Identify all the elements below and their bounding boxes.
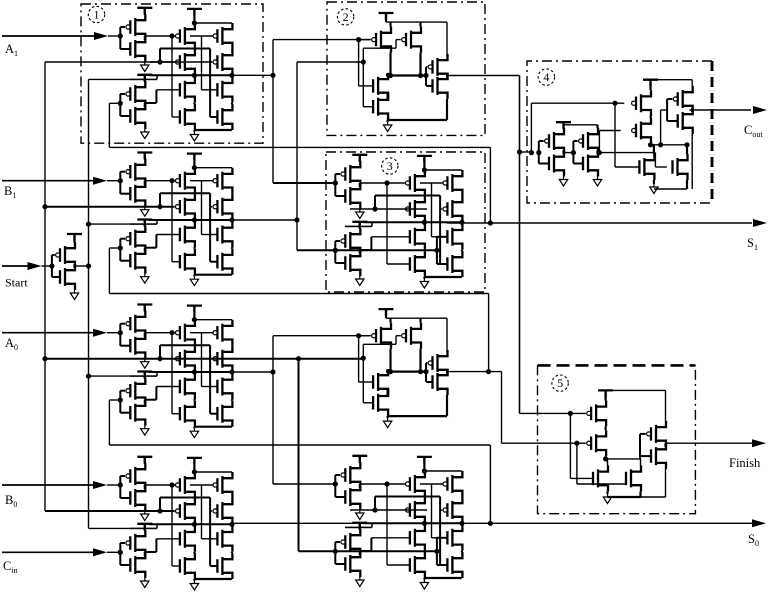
block4 input riser node [529, 150, 534, 155]
wire XL2 inverter1 output to mid P3 gate [145, 180, 175, 182]
XL1 inverter2 output node wire [144, 103, 146, 107]
block4 P stack to rail [649, 144, 651, 145]
XM5 right stack node [461, 551, 463, 552]
transistor U4-N4 (parallel NMOS B) [673, 154, 688, 180]
wire XL1 inverter1 output to mid P3 gate [145, 35, 175, 37]
wire to inverter3 gate [661, 109, 668, 111]
XM3 mid stack node [423, 250, 425, 251]
block4 rail node A [648, 142, 653, 147]
transistor XM5-P6 (right stack) [443, 497, 462, 523]
wire XM5 VDD link to right stack [424, 470, 462, 472]
block5 P stack to node [604, 456, 606, 459]
wire Start-bar tap to XL4 [89, 527, 158, 529]
XL4 mid stack node [193, 552, 195, 553]
wire XL1 inv1-out down to right N5 gate [201, 36, 203, 90]
wire B0 to inverter [107, 484, 120, 486]
wire [2, 551, 94, 553]
XL1 inverter1 VDD lead [144, 8, 146, 15]
ground (XL1 inverter1) [141, 62, 149, 72]
XM3 right stack node [461, 222, 463, 224]
svg-text:Finish: Finish [729, 456, 761, 470]
transistor XL3-P5 (right stack) [213, 320, 232, 346]
wire AND4 NAND output rail [386, 371, 426, 373]
transistor XL2-N6 (right stack) [217, 249, 232, 275]
AND2 PA drain lead [389, 22, 391, 27]
XL3 node inv1-out [169, 330, 174, 335]
wire XM5 in2 segment [350, 509, 427, 511]
block4 NA source [653, 180, 655, 184]
transistor XM3-N3 (mid stack) [410, 224, 425, 250]
wire block4 inv1 out [564, 152, 574, 154]
wire XL2 VDD link to right stack [194, 167, 232, 169]
wire XM5 N6 gate lead tie [437, 564, 448, 566]
block5 P series link [604, 426, 606, 430]
XL4 node inv1-out [169, 482, 174, 487]
AND2 N stack bottom [387, 120, 389, 122]
transistor XL2-N1 (inverter1 NMOS) [130, 181, 145, 207]
block4 inverter3 gate bus [666, 99, 668, 121]
XL3 right stack node [231, 372, 233, 374]
XL2 inverter2 NMOS gate stub [120, 260, 130, 262]
transistor XL3-N2 (inverter2 NMOS) [130, 400, 145, 426]
block label 4 (circled) [538, 69, 554, 85]
XM5 inverter1 output node wire [359, 484, 361, 488]
transistor QS-P (Start inverter PMOS) [56, 242, 75, 268]
output arrow Finish [752, 439, 766, 447]
block4 inv3 out node [691, 108, 693, 112]
wire XL3 in2 riser [159, 345, 161, 359]
wire XL3 fan vertical [272, 336, 274, 484]
wire block4 NB to ground [654, 188, 687, 190]
wire block4 to upper PMOS gate [531, 102, 624, 104]
wire XL4 second input to mid P4 gate [150, 510, 175, 512]
wire XL1 to mid N4 gate [172, 116, 180, 118]
AND4 PA drain lead [389, 318, 391, 323]
wire S1 feedback horizontal [109, 146, 490, 148]
wire block4 input down to N3 gate [614, 103, 616, 167]
Start inverter PMOS gate stub [52, 254, 55, 256]
wire XM3 inverter1 output to mid P3 gate [360, 182, 405, 184]
XL3 inverter1 input node [118, 330, 123, 335]
XM3 inverter1 gate bus [334, 174, 336, 196]
XM3 inverter1 input node [333, 180, 338, 185]
wire into block5 input1 [520, 412, 586, 414]
transistor XM5-P2 (inverter2 PMOS) [341, 529, 360, 555]
wire block5 NOR output rail [606, 458, 641, 460]
transistor XL1-P1 (inverter1 PMOS) [126, 14, 145, 40]
XL4 mid stack VDD lead [193, 458, 195, 472]
wire XM5 in2 riser [374, 497, 376, 511]
AND2 VDD stem [385, 13, 387, 22]
input arrow B0 [93, 481, 107, 489]
transistor XL1-P3 (mid stack) [176, 23, 195, 49]
XL3 inverter1 VDD lead [144, 305, 146, 312]
XL2 output node B [229, 217, 234, 222]
transistor QS-N (Start inverter NMOS) [60, 264, 75, 290]
svg-text:2: 2 [343, 10, 349, 24]
ground (XL4 inverter1) [141, 511, 149, 521]
transistor AND4-NA (NAND NMOS A) [373, 369, 388, 395]
transistor XM3-P2 (inverter2 PMOS) [341, 228, 360, 254]
wire XM3 inv1-out down to mid N4 gate [386, 183, 388, 264]
transistor AND2-NB (NAND NMOS B) [373, 94, 388, 120]
wire XL2 to mid N4 gate [172, 261, 180, 263]
XM3 inverter2 output node wire [359, 250, 361, 254]
XL1 output node B [229, 73, 234, 78]
node block4 input [517, 149, 522, 154]
AND4 N stack top link [387, 369, 389, 372]
XL3 inverter2 output node wire [144, 400, 146, 404]
wire XL2 inv1-out down to mid N4 gate [171, 181, 173, 262]
input arrow A0 [93, 329, 107, 337]
XL3 inverter2 PMOS gate stub [120, 390, 125, 392]
wire AND2 output [447, 75, 520, 77]
XM3 output node A [422, 220, 427, 225]
wire Start to XL1 in2 [45, 61, 212, 63]
block 5 boundary (dash-dot box) [538, 365, 696, 513]
Start inverter gate bus [51, 255, 53, 277]
XL1 output node A [192, 73, 197, 78]
wire XM3 inv2-out riser [370, 237, 372, 250]
transistor XL2-P1 (inverter1 PMOS) [126, 159, 145, 185]
VDD rail (XM5 mid stack) [417, 457, 432, 464]
AND4 VDD stem [385, 309, 387, 318]
svg-text:5: 5 [557, 376, 563, 390]
VDD rail (XL1 inverter2) [137, 75, 152, 82]
wire to XL2 inverter2 input [109, 247, 120, 249]
XL4 inverter1 VDD lead [144, 457, 146, 464]
XL1 inverter1 input node [118, 33, 123, 38]
ground (XL4 inverter2) [141, 578, 149, 588]
wire AND2 inverter VDD feed [446, 22, 448, 56]
wire XL4 P6 gate lead [210, 510, 212, 512]
XL2 inverter1 VDD lead [144, 153, 146, 160]
input arrow B1 [93, 177, 107, 185]
XM5 output node A [422, 521, 427, 526]
Start inverter NMOS gate stub [52, 276, 60, 278]
wire block4 to N4 gate down [654, 153, 656, 167]
bus Start-bar (x=88.5) [88, 79, 90, 528]
VDD rail (XM3 inverter1) [352, 155, 367, 162]
XL4 inverter2 NMOS gate stub [120, 564, 130, 566]
XL2 VDD node [192, 165, 197, 170]
block4 inverter1 gate bus [538, 141, 540, 164]
ground (AND4) [383, 418, 391, 428]
node XM5 stack gate tie [434, 549, 439, 554]
wire [2, 35, 95, 37]
wire block5 inverter N gate lead [640, 455, 651, 457]
wire AND4 output [447, 371, 502, 373]
XL3 inverter2 NMOS gate stub [120, 412, 130, 414]
XL4 inverter1 output node wire [144, 485, 146, 489]
XM5 inverter2 NMOS gate stub [335, 563, 345, 565]
wire Start-bar tap to XL2 [89, 223, 158, 225]
node XM5 in1 [333, 481, 338, 486]
XL2 node in2 [157, 204, 162, 209]
XL1 right stack node [231, 75, 233, 77]
ground (XL3 mid stack) [190, 428, 198, 438]
wire XL4 right stack to ground [194, 578, 232, 580]
wire block4 inverter3 input riser [660, 110, 662, 145]
transistor U4-P5 (out inverter PMOS) [673, 86, 692, 112]
block4 inv1 input [536, 150, 541, 155]
AND4 inverter NMOS gate stub [426, 381, 432, 383]
wire XL3 right stack to ground [194, 426, 232, 428]
transistor XL4-P2 (inverter2 PMOS) [126, 530, 145, 556]
wire block5 NB to ground [608, 496, 641, 498]
wire XM5 right stack to ground [424, 577, 462, 579]
AND2 PB drain lead [419, 22, 421, 27]
VDD rail (block5) [598, 390, 613, 397]
block label 1 (circled) [88, 6, 104, 22]
ground (block4 inverter2) [593, 177, 601, 187]
wire XL1 P6 gate lead [210, 61, 212, 63]
transistor XL3-P1 (inverter1 PMOS) [126, 311, 145, 337]
wire AND2 PA gate lead [359, 39, 371, 41]
wire AND4 output drop [501, 372, 503, 444]
block4 inv2 PMOS gate stub [573, 140, 577, 142]
XL3 mid stack node [193, 372, 195, 374]
transistor XM5-N1 (inverter1 NMOS) [345, 484, 360, 510]
VDD rail (XM5 inverter1) [352, 456, 367, 463]
AND4 node [388, 369, 393, 374]
ground (XL3 inverter1) [141, 359, 149, 369]
wire XL2 in2 cross to right stack [160, 192, 210, 194]
wire block5 VDD to inverter [606, 389, 666, 391]
wire XL2 inv2-out riser [155, 235, 157, 248]
transistor U5-P1 (series PMOS upper) [587, 400, 606, 426]
wire XL4 inv2-out riser [155, 539, 157, 552]
XM3 right stack node [461, 250, 463, 251]
wire XM3 N5 gate lead [432, 236, 448, 238]
XM3 inverter2 gate bus [334, 241, 336, 263]
bus Start (x=45) [44, 62, 46, 511]
XL2 inverter2 gate bus [119, 239, 121, 261]
XL3 mid stack VDD lead [193, 306, 195, 320]
VDD rail (AND2 NAND) [379, 13, 394, 20]
transistor AND2-PB (NAND PMOS B) [402, 27, 421, 53]
ground (XM5 mid stack) [420, 580, 428, 590]
XL2 inverter2 input node [118, 245, 123, 250]
block4 inv2 VDD lead [596, 125, 598, 128]
transistor XM3-N6 (right stack) [447, 251, 462, 277]
XL3 mid gnd lead [193, 427, 195, 429]
XL2 inverter1 PMOS gate stub [120, 171, 125, 173]
transistor U4-P1 (inverter1 PMOS) [545, 128, 564, 154]
XL3 inverter2 gate bus [119, 391, 121, 413]
wire XL2 second input to mid P4 gate [150, 206, 175, 208]
AND2 inverter PMOS gate stub [426, 66, 427, 68]
wire XL1 tap riser [156, 75, 158, 79]
wire XM5 right stack gate tie vertical [436, 538, 438, 565]
VDD rail (XL4 inverter1) [137, 457, 152, 464]
VDD rail (XL1 mid stack) [187, 9, 202, 16]
wire XL3 output [232, 371, 273, 373]
XM3 node inv1-out [384, 180, 389, 185]
wire to XL1 inverter2 input [109, 102, 120, 104]
wire XL1 in2 riser [159, 49, 161, 63]
XL2 node inv1-out [169, 178, 174, 183]
node S0 feedback join [488, 521, 493, 526]
XM5 inverter2 PMOS gate stub [335, 541, 340, 543]
wire XL3 inv2-out riser [155, 387, 157, 400]
wire XL2 right stack to ground [194, 274, 232, 276]
wire XL1 inverter2 output [145, 102, 157, 104]
XL1 inverter1 gate bus [119, 27, 121, 49]
XM3 output node B [459, 220, 464, 225]
wire XM3 N6 gate lead tie [437, 263, 448, 265]
wire XL2 fan vertical [296, 62, 298, 250]
wire XL4 output rail [149, 523, 232, 525]
wire AND4 inverter VDD feed [446, 318, 448, 352]
wire XL2 P6 gate lead [210, 206, 212, 208]
XL2 mid stack node [193, 248, 195, 249]
transistor U4-P4 (series PMOS lower) [632, 118, 651, 144]
XL3 right stack node [231, 400, 233, 401]
wire XL3 inv2-out to mid N3 gate [156, 386, 179, 388]
XL4 inverter2 gate bus [119, 543, 121, 565]
transistor XL1-N3 (mid stack) [180, 77, 195, 103]
wire XL4 inverter1 output to mid P3 gate [145, 484, 175, 486]
transistor XL1-P6 (right stack) [213, 49, 232, 75]
block4 inv2 out node dot [597, 150, 602, 155]
XM5 node in2 [372, 507, 377, 512]
wire XL3 N5 gate lead [202, 386, 218, 388]
transistor U5-N2 (parallel NMOS B) [626, 465, 641, 491]
wire XL2 tap riser [156, 220, 158, 224]
wire XL3 in2 cross to right stack [160, 344, 210, 346]
wire XL1 inv1-out down to mid N4 gate [171, 36, 173, 117]
block4 P series link [649, 116, 651, 117]
VDD rail (XL4 inverter2) [137, 524, 152, 531]
XM5 inverter1 PMOS gate stub [335, 474, 340, 476]
XL3 inverter1 gate bus [119, 324, 121, 346]
wire XL2 right P5 gate lead [190, 180, 213, 182]
wire Start-bar tap to XL1 [89, 78, 158, 80]
AND4 input B node [361, 356, 366, 361]
wire XL3 enable tap [130, 375, 157, 377]
ground (XL1 inverter2) [141, 129, 149, 139]
wire XL4 in2 down right stack [209, 498, 211, 567]
svg-text:1: 1 [94, 8, 100, 22]
node Start branch to XM5 [296, 356, 301, 361]
wire XL4 inv2-out to mid N3 gate [156, 538, 179, 540]
wire S0 feedback bus [108, 400, 110, 445]
XM5 mid gnd lead [423, 578, 425, 580]
AND2 out-inverter gate bus [425, 67, 427, 86]
wire XL2 output [232, 219, 297, 221]
wire block5 inverter source down [665, 469, 667, 497]
block5 inverter gate bus [639, 434, 641, 459]
ground (XL3 inverter2) [141, 426, 149, 436]
output arrow S0 [752, 519, 766, 527]
wire to AND4 input A [273, 335, 371, 337]
VDD rail (XM3 inverter2) [352, 222, 367, 229]
wire Start-bar output to bus [75, 265, 89, 267]
transistor XM3-N5 (right stack) [447, 224, 462, 250]
node XL2 output fan [294, 217, 299, 222]
AND4 PA source to out [389, 349, 391, 372]
VDD rail (XM5 inverter2) [352, 523, 367, 530]
XM5 mid stack node [423, 523, 425, 525]
wire XL4 enable tap [130, 527, 157, 529]
block4 inv1 out node [562, 151, 564, 155]
AND2 inverter output node [446, 76, 448, 78]
wire block4 inv3 source down [691, 134, 693, 189]
XM5 inverter1 VDD lead [359, 456, 361, 463]
wire XL1 in2 cross to right stack [160, 48, 210, 50]
block5 NOR out node [603, 456, 608, 461]
wire XM3 inv1-out down to right N5 gate [431, 183, 433, 237]
transistor XM5-N4 (mid stack) [410, 552, 425, 578]
wire XM3 in2 segment [350, 208, 427, 210]
XL4 inverter2 output node wire [144, 552, 146, 556]
wire XL4 tap riser [156, 524, 158, 528]
node C1 join [486, 369, 491, 374]
VDD rail (XL2 inverter2) [137, 220, 152, 227]
output arrow S1 [753, 219, 767, 227]
wire XL1 output [232, 74, 273, 76]
XM5 right stack node [461, 523, 463, 525]
wire to AND2 input A [273, 39, 371, 41]
wire XL1 enable tap [130, 78, 157, 80]
XM3 VDD node [422, 167, 427, 172]
XL3 inverter1 PMOS gate stub [120, 323, 125, 325]
wire block4 N4 gate lead [655, 166, 667, 168]
transistor AND2-PA (NAND PMOS A) [372, 27, 391, 53]
VDD rail (XL3 mid stack) [187, 306, 202, 313]
block4 inv1 PMOS gate stub [539, 140, 544, 142]
wire XL4 VDD link to right stack [194, 471, 232, 473]
wire C1 bus [108, 248, 110, 294]
transistor XM5-N2 (inverter2 NMOS) [345, 551, 360, 577]
VDD rail (XL1 inverter1) [137, 8, 152, 15]
block label 3 (circled) [382, 158, 398, 174]
transistor XL1-N2 (inverter2 NMOS) [130, 103, 145, 129]
ground (XM5 inverter2) [356, 577, 364, 587]
wire XL3 VDD link to right stack [194, 319, 232, 321]
transistor XL2-N4 (mid stack) [180, 249, 195, 275]
AND2 node [388, 73, 393, 78]
XL2 inverter1 NMOS gate stub [120, 193, 130, 195]
wire XL1 inv2-out riser [155, 90, 157, 103]
wire XM5 inv2-out to mid N3 gate [371, 537, 409, 539]
AND2 PB source to out [419, 53, 421, 76]
transistor XM3-P6 (right stack) [443, 196, 462, 222]
VDD rail (XL4 mid stack) [187, 458, 202, 465]
AND2 input A node [356, 37, 361, 42]
input arrow Cin [93, 548, 107, 556]
wire AND2 input B over [363, 47, 396, 49]
wire block4 to P4 gate [599, 130, 620, 132]
transistor XM3-P4 (mid stack) [406, 196, 425, 222]
wire Finish output [666, 442, 753, 444]
wire [569, 413, 571, 478]
ground (XL2 inverter2) [141, 274, 149, 284]
input arrow A1 [94, 32, 108, 40]
transistor XL2-P6 (right stack) [213, 194, 232, 220]
wire AND2 PB gate lead [396, 39, 401, 41]
block4 inv2 out node [596, 151, 598, 155]
wire AND2 input B to NMOS gate [362, 62, 364, 107]
transistor U5-P3 (out inverter PMOS) [647, 421, 666, 447]
wire [2, 180, 94, 182]
transistor XL3-P3 (mid stack) [176, 320, 195, 346]
wire XL2 N5 gate lead [202, 234, 218, 236]
wire XL3 inv1-out down to right N5 gate [201, 333, 203, 387]
transistor XL2-P3 (mid stack) [176, 168, 195, 194]
wire XM3 in2 down right stack [439, 196, 441, 265]
